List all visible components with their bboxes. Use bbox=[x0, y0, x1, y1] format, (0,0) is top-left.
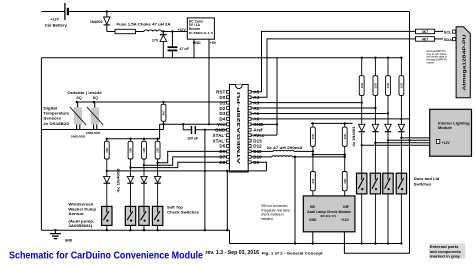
capacitor C1 47uF bbox=[168, 32, 190, 58]
wire col4 to D6 bbox=[156, 151, 226, 164]
resistor R13 10K bbox=[342, 127, 347, 146]
diodes D3-D6 4x 1N4003 left bbox=[104, 176, 161, 206]
svg-text:Outside | Inside: Outside | Inside bbox=[67, 91, 102, 95]
wire AVcc bbox=[251, 134, 277, 136]
svg-text:SDA: SDA bbox=[444, 37, 452, 42]
node SDA bbox=[444, 37, 456, 42]
svg-text:10K: 10K bbox=[156, 147, 160, 153]
wire GND right to top bbox=[251, 58, 278, 135]
resistor R6 4K7 SDA bbox=[416, 37, 435, 42]
wire A4 to SDA bbox=[251, 39, 415, 97]
wire ground rail step bbox=[229, 230, 231, 243]
wire Vcc row bbox=[160, 123, 227, 125]
wire DC +5V pin bbox=[208, 39, 210, 124]
svg-text:4K7: 4K7 bbox=[422, 30, 428, 34]
svg-text:4x 1N4003: 4x 1N4003 bbox=[352, 126, 356, 146]
resistor R12 10K bbox=[311, 127, 316, 146]
svg-text:1N4003: 1N4003 bbox=[90, 20, 103, 24]
svg-text:Atmega1284P-PU: Atmega1284P-PU bbox=[462, 34, 467, 90]
wire ground rail bottom left bbox=[41, 229, 229, 231]
svg-text:D3: D3 bbox=[219, 111, 225, 116]
wire divider junction bbox=[312, 123, 346, 171]
svg-text:KB: KB bbox=[310, 205, 315, 209]
resistor R15 10K bbox=[342, 172, 347, 191]
wire audi gnd bbox=[312, 232, 314, 245]
switches soft top and washer sensor bbox=[102, 206, 163, 231]
resistor R14 22k bbox=[311, 172, 316, 191]
svg-text:GND: GND bbox=[309, 218, 317, 222]
fuse F1 1.5A bbox=[115, 29, 136, 33]
svg-text:D0: D0 bbox=[219, 95, 225, 100]
choke L1 47uH bbox=[144, 30, 162, 32]
wire col2 to D8 bbox=[129, 162, 226, 169]
label KB note bbox=[261, 204, 290, 221]
label 4x 1N4003 right bbox=[352, 126, 356, 146]
resistors R8-R11 10K left pullups bbox=[104, 139, 160, 177]
wire GND row bbox=[195, 129, 226, 131]
svg-text:Fig. 1 of 2 - General Concept: Fig. 1 of 2 - General Concept bbox=[262, 251, 324, 255]
svg-text:ATMEGA328P-PU: ATMEGA328P-PU bbox=[236, 92, 241, 164]
svg-text:+12V: +12V bbox=[177, 28, 186, 32]
zener D2 17V bbox=[152, 32, 167, 58]
wire D10 down to gnd rail bbox=[294, 157, 296, 245]
svg-text:10K: 10K bbox=[374, 82, 378, 88]
label GND pin bbox=[193, 41, 201, 45]
svg-text:Module: Module bbox=[438, 125, 453, 130]
svg-text:4k7: 4k7 bbox=[162, 110, 166, 115]
svg-text:47 uF: 47 uF bbox=[179, 47, 189, 51]
switches door and lid bbox=[357, 173, 407, 245]
svg-text:GND1/VDD: GND1/VDD bbox=[71, 135, 85, 139]
wire A5 to SCL bbox=[251, 31, 415, 91]
svg-text:XTAL': XTAL' bbox=[213, 138, 226, 143]
svg-text:4x 1N4003: 4x 1N4003 bbox=[117, 168, 121, 192]
wire Vcc to pullup rail bbox=[159, 124, 161, 139]
svg-text:GND: GND bbox=[65, 238, 73, 242]
label soft top check switches bbox=[167, 204, 200, 214]
transistor sensors DS18B20 x2 bbox=[70, 102, 103, 130]
wire fuse to choke bbox=[136, 31, 145, 33]
wire diode to fuse bbox=[107, 31, 115, 33]
ground symbol GND bbox=[50, 229, 73, 242]
svg-text:installed.: installed. bbox=[261, 217, 274, 221]
wire DC GND pin bbox=[193, 39, 195, 58]
svg-text:RST: RST bbox=[216, 90, 225, 95]
label GND1/VDD 1 bbox=[71, 135, 85, 139]
wire ground rail bottom right bbox=[230, 243, 402, 245]
svg-text:GND1/VDD: GND1/VDD bbox=[86, 131, 100, 135]
wire A3 line bbox=[251, 101, 363, 103]
svg-text:master.: master. bbox=[426, 60, 435, 64]
wire A0 line bbox=[251, 118, 409, 120]
label GND1/VDD 2 bbox=[86, 131, 100, 135]
wire gnd drop around xtal bbox=[204, 130, 206, 232]
label Outside Inside bbox=[67, 91, 102, 95]
diodes D7-D10 4x 1N4003 right bbox=[359, 124, 405, 173]
wire audi +12V bbox=[344, 232, 409, 254]
wire KB pins bbox=[313, 191, 345, 196]
label 2x 47uH bbox=[267, 146, 303, 150]
label 4x 1N4003 left bbox=[117, 168, 121, 192]
label I2C note bbox=[426, 49, 447, 64]
label external parts note bbox=[429, 244, 465, 259]
svg-text:10K: 10K bbox=[142, 147, 146, 153]
labels right pins A5-A0 D13-D9 bbox=[253, 90, 265, 165]
resistor R7 4k7 DQ pullup bbox=[161, 102, 166, 130]
wire col3 to D7 bbox=[143, 157, 227, 167]
label DQ 2 bbox=[93, 96, 98, 100]
battery B1 +12V car battery bbox=[45, 3, 68, 28]
svg-text:2x 47 uH 200mA: 2x 47 uH 200mA bbox=[267, 146, 303, 150]
label windscreen washer pump sensor bbox=[68, 202, 96, 229]
svg-text:10K: 10K bbox=[343, 178, 347, 184]
wire +12V pullup rail right bbox=[311, 122, 353, 124]
label door and lid switches bbox=[414, 176, 440, 186]
wire sensor gnd rail bbox=[41, 129, 163, 131]
svg-text:rev. 1.3 - Sep 03, 2016: rev. 1.3 - Sep 03, 2016 bbox=[206, 250, 260, 256]
svg-text:Fuse 1.5A Choke 47 uH 2A: Fuse 1.5A Choke 47 uH 2A bbox=[117, 22, 171, 26]
svg-text:400 919 471: 400 919 471 bbox=[320, 214, 336, 218]
wire ground loop top bbox=[41, 57, 401, 59]
wire SCL to pad bbox=[435, 30, 443, 32]
op-amp U1 ATMEGA328P-PU chip body and pins bbox=[227, 85, 251, 173]
svg-text:marked in gray: marked in gray bbox=[430, 254, 461, 259]
svg-text:SCL: SCL bbox=[444, 29, 452, 34]
node SCL bbox=[444, 29, 456, 34]
wire SDA to pad bbox=[435, 38, 443, 40]
svg-text:Check Switches: Check Switches bbox=[167, 209, 200, 214]
label DQ 1 bbox=[77, 96, 82, 100]
resistor R5 4K7 SCL bbox=[416, 29, 435, 34]
capacitor C2 100uF bbox=[183, 124, 198, 140]
svg-text:4A0955681): 4A0955681) bbox=[68, 223, 93, 228]
svg-text:Switches: Switches bbox=[414, 181, 432, 186]
op-amp U3 Atmega1284P-PU bbox=[456, 27, 470, 98]
wire ground loop left bbox=[40, 58, 42, 231]
choke L3 47uH D10 bbox=[251, 156, 346, 158]
wire lines to interior lighting module bbox=[361, 137, 430, 147]
svg-text:22k: 22k bbox=[311, 178, 315, 183]
svg-text:+12V: +12V bbox=[442, 141, 451, 145]
svg-text:10K: 10K bbox=[129, 147, 133, 153]
svg-text:10K: 10K bbox=[400, 82, 404, 88]
svg-text:R-78E5.0-1.0: R-78E5.0-1.0 bbox=[189, 31, 213, 35]
wire DQ rail bbox=[76, 101, 227, 103]
module interior lighting bbox=[430, 109, 472, 156]
wire pullup rail bbox=[106, 138, 160, 140]
label +5V pin bbox=[210, 41, 217, 45]
wire +12V right riser bbox=[409, 12, 411, 254]
svg-text:DQ: DQ bbox=[77, 96, 82, 100]
svg-text:17V: 17V bbox=[152, 39, 159, 43]
svg-text:D1: D1 bbox=[219, 100, 225, 105]
wire +12V rail from battery bbox=[41, 11, 409, 13]
svg-text:4K7: 4K7 bbox=[422, 37, 428, 41]
svg-text:D4: D4 bbox=[219, 117, 225, 122]
svg-text:D13: D13 bbox=[253, 138, 262, 143]
svg-text:KB*: KB* bbox=[343, 205, 350, 209]
label +12V at DC input bbox=[177, 28, 186, 32]
svg-text:10K: 10K bbox=[343, 133, 347, 139]
wire A1 line bbox=[251, 112, 389, 114]
svg-text:GND: GND bbox=[193, 41, 201, 45]
label fuse choke bbox=[117, 22, 171, 26]
wire choke to DC conv bbox=[162, 30, 188, 32]
svg-text:10K: 10K bbox=[311, 133, 315, 139]
svg-text:Aref: Aref bbox=[253, 127, 263, 132]
labels left pins RST D0-D8 XTAL bbox=[213, 90, 226, 165]
wire col1 to D9 long line bbox=[106, 170, 267, 172]
svg-text:DQ: DQ bbox=[93, 96, 98, 100]
diode D1 1N4003 bbox=[90, 10, 110, 31]
svg-text:Sensor: Sensor bbox=[68, 211, 84, 216]
module Audi lamp check bbox=[303, 196, 355, 232]
svg-text:+5V: +5V bbox=[210, 41, 217, 45]
svg-text:D5: D5 bbox=[219, 144, 225, 149]
svg-text:Car Battery: Car Battery bbox=[45, 23, 68, 28]
svg-text:100 uF: 100 uF bbox=[187, 137, 198, 141]
choke L2 47uH D11 bbox=[251, 150, 314, 152]
wire D9 loop bbox=[226, 162, 266, 231]
svg-text:10K: 10K bbox=[105, 147, 109, 153]
svg-text:D12: D12 bbox=[253, 144, 262, 149]
svg-text:2x DS18B20: 2x DS18B20 bbox=[43, 121, 69, 126]
svg-text:Schematic for CarDuino Conveni: Schematic for CarDuino Convenience Modul… bbox=[9, 250, 203, 261]
svg-text:D2: D2 bbox=[219, 106, 225, 111]
DC converter U2 R-78E5.0 bbox=[187, 18, 214, 39]
svg-text:10K: 10K bbox=[360, 82, 364, 88]
resistors R16-R19 10K right bbox=[359, 57, 404, 125]
svg-text:XTAL': XTAL' bbox=[213, 133, 226, 138]
wire A2 line bbox=[251, 107, 376, 109]
label digital temperature sensors bbox=[43, 105, 70, 126]
svg-text:10K: 10K bbox=[386, 82, 390, 88]
svg-text:+12V: +12V bbox=[341, 218, 350, 222]
label title bbox=[9, 250, 324, 261]
svg-text:+12V: +12V bbox=[50, 18, 59, 22]
